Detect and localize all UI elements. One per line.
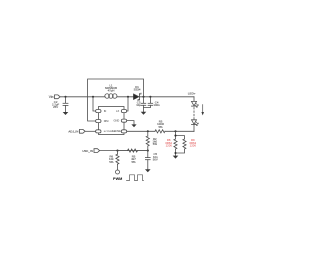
svg-text:10µ: 10µ: [136, 103, 141, 107]
svg-text:100n: 100n: [153, 103, 160, 107]
label R5: [131, 155, 136, 164]
pin IN pad: [96, 110, 101, 113]
wire sense resistor to LED-: [165, 130, 194, 132]
svg-text:5%: 5%: [109, 160, 114, 164]
svg-text:5%: 5%: [153, 142, 158, 146]
wire LED string top: [193, 97, 195, 102]
LED D3: [192, 120, 199, 126]
pin labels U1: [104, 109, 121, 133]
node shunt split: [174, 135, 176, 137]
svg-text:USK_IN: USK_IN: [82, 149, 92, 153]
LED D2: [192, 101, 199, 107]
capacitor C4: [144, 97, 153, 108]
resistor R6 (vertical, dim): [116, 151, 119, 170]
svg-text:PWM: PWM: [113, 177, 122, 181]
capacitor C2: [63, 103, 68, 112]
svg-text:5%: 5%: [131, 160, 136, 164]
current arrow: [201, 105, 204, 116]
node output-FB junction: [142, 96, 144, 98]
svg-text:Vin: Vin: [49, 95, 54, 99]
node C4 junction: [149, 96, 151, 98]
resistor R4b (shunt right): [183, 139, 186, 149]
wire inductor to diode: [117, 96, 133, 98]
wire SENSE net: [127, 130, 155, 132]
wire filter to dim divider: [118, 150, 148, 152]
ground (C3/C4): [141, 112, 147, 115]
capacitor C3: [141, 97, 146, 112]
svg-text:ADJ_IN: ADJ_IN: [68, 130, 78, 134]
svg-text:IN: IN: [104, 109, 107, 113]
pin SENSE pad: [121, 130, 126, 133]
label C4: [153, 100, 160, 107]
resistor R5 (horizontal, dim): [128, 149, 138, 152]
label R6: [109, 155, 114, 164]
resistor R2 (vertical, filter): [146, 131, 149, 150]
svg-text:1206: 1206: [190, 144, 197, 148]
port Vin: [55, 95, 61, 99]
ground (GND pin): [131, 124, 136, 127]
svg-text:5%: 5%: [158, 125, 163, 129]
wire to IN pin: [93, 97, 95, 111]
ground (filter cap): [145, 169, 151, 172]
feedback loop wire: [88, 79, 144, 121]
wire divider to resistor: [118, 150, 148, 152]
wire diode to LED+: [140, 96, 195, 98]
label C2 value: [52, 100, 59, 109]
ground (C2): [63, 112, 69, 115]
node divider junction: [116, 150, 118, 152]
inductor L1: [105, 94, 117, 99]
node IN-drop junction: [92, 96, 94, 98]
label L1: [105, 83, 118, 92]
dashed LED string: [193, 108, 195, 120]
svg-text:LX: LX: [116, 109, 119, 113]
svg-text:DIM: DIM: [104, 119, 109, 123]
svg-text:LED+: LED+: [188, 92, 196, 96]
diode D1: [133, 93, 141, 101]
wire ADJ to pin: [85, 130, 95, 132]
svg-text:47µH: 47µH: [108, 89, 115, 93]
pin LX pad: [121, 110, 126, 113]
wire GND pin stub: [127, 121, 134, 125]
node LX junction: [127, 96, 129, 98]
label D1: [134, 85, 141, 92]
wire C2 drop: [65, 97, 67, 103]
node filter junction: [147, 150, 149, 152]
svg-text:25V: 25V: [53, 105, 58, 109]
port ADJ_IN: [80, 129, 86, 133]
svg-text:1206: 1206: [166, 144, 173, 148]
port DIM_IN: [94, 149, 100, 153]
pin PWM pad: [96, 130, 101, 133]
wire Vin to inductor: [60, 96, 105, 98]
IC U1 body: [99, 107, 125, 135]
node SENSE junction: [147, 130, 149, 132]
node shunt junction: [174, 130, 176, 132]
wire DIM_IN: [100, 150, 118, 152]
label R4b: [189, 138, 196, 148]
pin GND pad: [121, 119, 126, 122]
port PWM circle: [116, 170, 120, 174]
pwm waveform: [127, 175, 144, 181]
label R4a: [165, 138, 172, 148]
svg-text:SENSE: SENSE: [112, 129, 121, 133]
label C5: [153, 152, 158, 161]
resistor R4a (shunt left): [174, 139, 177, 149]
node shunt bottom: [174, 152, 176, 154]
wire shunt join: [176, 149, 185, 156]
svg-text:SS34: SS34: [134, 88, 141, 92]
node input-cap junction: [64, 96, 66, 98]
label C3: [136, 100, 141, 107]
svg-text:50V: 50V: [153, 157, 158, 161]
wire LX pin: [126, 97, 129, 111]
svg-text:GND: GND: [114, 119, 120, 123]
wire LED string bottom: [193, 125, 195, 132]
ground (shunt): [173, 156, 179, 159]
wire shunt split: [176, 131, 185, 139]
label R2: [153, 137, 158, 146]
capacitor C5 (filter): [145, 151, 150, 170]
resistor R3 (horizontal, sense): [155, 130, 165, 133]
label R3: [157, 120, 164, 129]
pin DIM pad: [96, 120, 101, 123]
